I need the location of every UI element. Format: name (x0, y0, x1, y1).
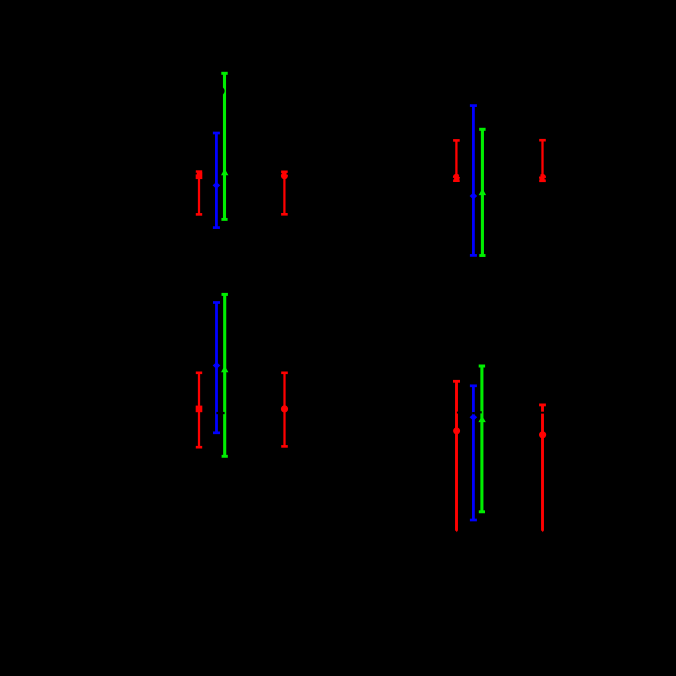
black nick bottom-right TR-right (545, 178, 546, 179)
red bar TL-right (281, 172, 288, 215)
black nick right of BR-left red line (457, 412, 458, 414)
red bar TR-right (539, 140, 546, 181)
black bite left of green line (480, 411, 482, 413)
black bite above blue diamond (472, 412, 475, 414)
black nick bottom-left TR-left (453, 178, 454, 179)
red bar BR-left (no bottom cap) (453, 381, 460, 532)
blue bar TL (213, 133, 221, 228)
red bar BL-left (196, 373, 203, 447)
red bar TR-left (453, 140, 460, 180)
blue bar BL (213, 303, 221, 433)
red bar BL-right (281, 373, 288, 447)
red bar BR-right (no bottom cap) (539, 405, 546, 532)
red bar TL-left (196, 172, 203, 215)
black gap across BR-right red line (541, 412, 544, 414)
blue bar BR (470, 386, 478, 520)
black horizontal band across blue and green (216, 412, 224, 414)
blue bar TR (470, 106, 478, 256)
black notch left of TR-right red circle (539, 175, 541, 177)
black notch on left red square (195, 173, 197, 175)
green bar TR (479, 129, 486, 255)
black notch right of TR-left red circle (459, 175, 461, 177)
black occluder circle over green line (216, 87, 225, 96)
green bar TL (221, 73, 228, 219)
black notch on right red marker (287, 173, 289, 175)
green bar BL (221, 294, 228, 456)
green bar BR (478, 366, 485, 512)
